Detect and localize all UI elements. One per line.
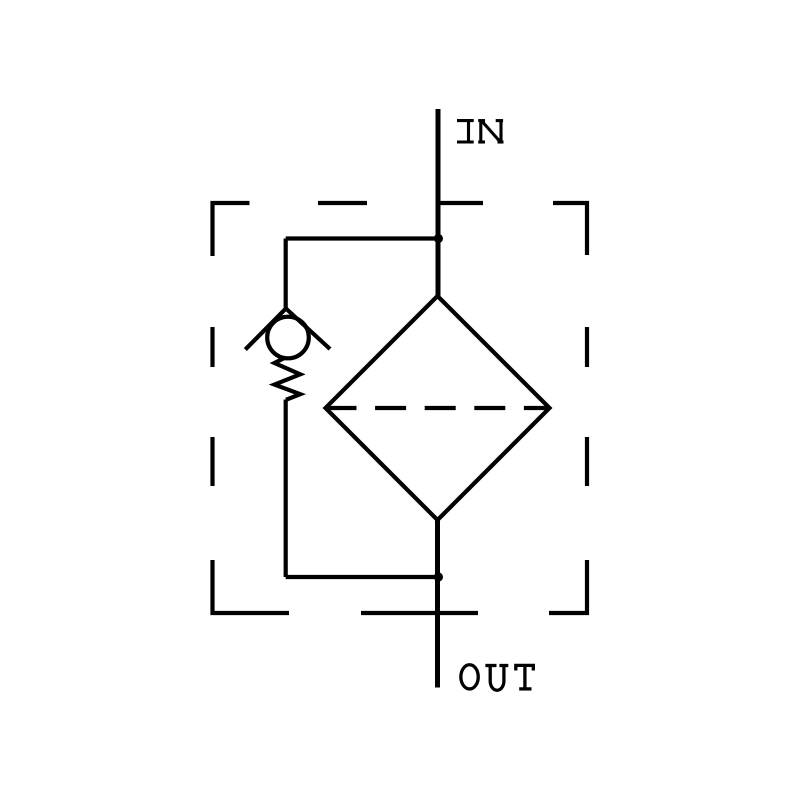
wire OUT vertical line <box>435 518 440 688</box>
enclosure dashed box top edge dash 2 <box>318 201 367 205</box>
check valve V1 ball <box>267 317 309 359</box>
enclosure dashed box top-right corner <box>553 203 587 255</box>
wire branch upper vertical <box>284 239 288 311</box>
wire IN vertical line <box>436 109 441 297</box>
enclosure dashed box right edge dash 2 <box>585 327 589 367</box>
check valve V1 seat right arm <box>286 309 330 350</box>
filter F1 diamond <box>326 296 550 520</box>
enclosure dashed box top-left corner <box>213 203 250 256</box>
enclosure dashed box bottom edge dash 2 <box>361 611 478 615</box>
wire branch top horizontal <box>286 236 438 240</box>
enclosure dashed box left edge dash 3 <box>210 437 214 486</box>
label OUT <box>461 665 533 691</box>
check valve V1 spring <box>275 358 301 400</box>
label IN <box>457 120 504 143</box>
enclosure dashed box left edge dash 2 <box>210 327 214 367</box>
wire branch bottom horizontal <box>286 575 438 579</box>
letter O <box>461 665 478 689</box>
enclosure dashed box right edge dash 3 <box>585 437 589 486</box>
letter T <box>516 665 534 670</box>
enclosure dashed box top edge dash 3 <box>437 201 483 205</box>
node junction dot top <box>434 234 443 243</box>
filter F1 element dashed line <box>326 406 550 410</box>
wire branch lower vertical <box>284 400 288 578</box>
letter U <box>485 664 496 667</box>
enclosure dashed box bottom-left corner <box>213 560 290 613</box>
letter I <box>457 119 474 122</box>
check valve V1 seat left arm <box>245 309 286 350</box>
enclosure dashed box bottom-right corner <box>549 560 587 613</box>
node junction dot bottom <box>434 572 443 581</box>
letter N <box>478 119 485 122</box>
